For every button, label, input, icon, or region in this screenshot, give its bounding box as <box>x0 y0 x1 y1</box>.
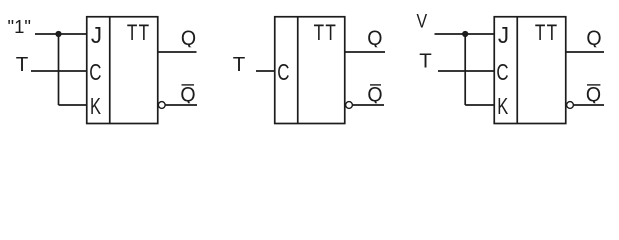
inversion bubble on /Q output of U3 <box>567 102 574 109</box>
net label Q-bar (U2) <box>367 82 382 106</box>
svg-text:"1": "1" <box>8 16 31 37</box>
svg-text:Q: Q <box>367 26 382 50</box>
svg-text:Q: Q <box>181 26 196 50</box>
svg-text:T: T <box>233 53 246 76</box>
svg-text:C: C <box>496 60 508 86</box>
svg-text:T: T <box>139 21 149 46</box>
flip-flop U3 body <box>494 17 566 124</box>
svg-text:J: J <box>498 21 509 48</box>
svg-text:C: C <box>277 60 289 86</box>
wire: /Q output of U2 <box>353 104 385 106</box>
wire: Q output of U3 <box>566 51 604 53</box>
svg-text:Q: Q <box>586 82 601 106</box>
inversion bubble on /Q output of U2 <box>346 102 353 109</box>
wire: Q output of U1 <box>158 51 197 53</box>
wire: "1" to J input of U1 <box>35 33 87 35</box>
overbar of Q-bar (U1) <box>182 84 195 86</box>
svg-text:T: T <box>535 21 545 46</box>
wire: T to C input of U1 <box>31 70 87 72</box>
svg-text:T: T <box>325 21 335 46</box>
svg-text:K: K <box>497 94 508 119</box>
svg-text:V: V <box>416 10 427 32</box>
wire: Q output of U2 <box>345 51 385 53</box>
inversion bubble on /Q output of U1 <box>158 102 165 109</box>
wire: T to C input of U3 <box>438 70 495 72</box>
svg-text:K: K <box>90 94 101 119</box>
wire: /Q output of U1 <box>165 104 197 106</box>
wire: branch to K input of U3 <box>465 104 494 106</box>
junction dot on V net <box>462 31 468 37</box>
net label Q (U3) <box>586 26 601 50</box>
svg-text:T: T <box>16 53 29 76</box>
svg-text:Q: Q <box>586 26 601 50</box>
flip-flop U2 body <box>275 17 345 124</box>
wire: T to C input of U2 <box>256 70 275 72</box>
wire: junction branch down <box>58 34 60 105</box>
svg-text:Q: Q <box>180 82 195 106</box>
net label Q-bar (U3) <box>586 82 601 106</box>
wire: V to J input of U3 <box>435 33 495 35</box>
wire: /Q output of U3 <box>574 104 605 106</box>
svg-text:T: T <box>127 21 137 46</box>
svg-text:Q: Q <box>367 82 382 106</box>
svg-text:T: T <box>547 21 557 46</box>
flip-flop U1 body <box>87 17 158 124</box>
junction dot on "1" net <box>55 31 61 37</box>
wire: branch to K input of U1 <box>59 104 88 106</box>
net label Q (U2) <box>367 26 382 50</box>
wire: junction branch down (circuit 3) <box>464 34 466 105</box>
net label Q-bar (U1) <box>180 82 195 106</box>
flip-flop U2 control-section divider <box>297 17 299 124</box>
svg-text:T: T <box>419 50 432 73</box>
net label Q (U1) <box>181 26 196 50</box>
svg-text:C: C <box>89 60 101 86</box>
overbar of Q-bar (U2) <box>370 84 381 86</box>
svg-text:J: J <box>91 21 102 48</box>
overbar of Q-bar (U3) <box>587 84 600 86</box>
flip-flop U1 control-section divider <box>109 17 111 124</box>
flip-flop U3 control-section divider <box>516 17 518 124</box>
svg-text:T: T <box>314 21 324 46</box>
